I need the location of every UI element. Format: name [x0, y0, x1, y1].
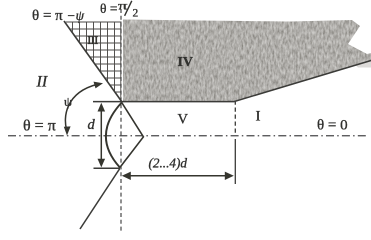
- lens cavity left arc: [106, 103, 122, 168]
- bottom tick line at lens lower vertex: [94, 167, 121, 169]
- svg-text:d: d: [88, 117, 96, 133]
- svg-text:II: II: [36, 74, 48, 91]
- label theta = pi/2: [100, 0, 139, 20]
- region IV gray stippled area: [118, 14, 371, 106]
- gray region bottom border and interface line: [93, 61, 371, 102]
- lens cavity right wedge: [120, 103, 143, 168]
- dimension extension line at x=235: [234, 101, 236, 134]
- svg-text:θ = π: θ = π: [23, 118, 56, 135]
- psi angle arc arrow: [65, 84, 97, 131]
- svg-text:I: I: [256, 109, 261, 125]
- svg-text:π: π: [118, 0, 128, 13]
- svg-text:ψ: ψ: [64, 94, 72, 109]
- theta = 0 / theta = pi dash-dot axis: [8, 135, 366, 137]
- svg-text:III: III: [88, 33, 99, 47]
- theta = pi/2 dashed vertical line: [120, 9, 122, 231]
- svg-text:θ =: θ =: [100, 1, 117, 16]
- svg-text:IV: IV: [178, 55, 194, 70]
- svg-text:θ = π −ψ: θ = π −ψ: [32, 8, 85, 24]
- lower wedge boundary ray: [80, 169, 120, 230]
- wedge boundary ray theta = pi - psi: [64, 21, 122, 102]
- svg-text:(2...4)d: (2...4)d: [149, 156, 188, 171]
- svg-text:2: 2: [133, 8, 139, 20]
- d dimension arrow: [98, 103, 106, 168]
- svg-text:θ = 0: θ = 0: [317, 118, 348, 134]
- (2...4)d dimension arrow: [122, 172, 234, 180]
- region III cross-hatched triangle: [64, 22, 122, 102]
- svg-text:V: V: [178, 112, 189, 128]
- torn gray patch below diagonal right: [355, 60, 371, 68]
